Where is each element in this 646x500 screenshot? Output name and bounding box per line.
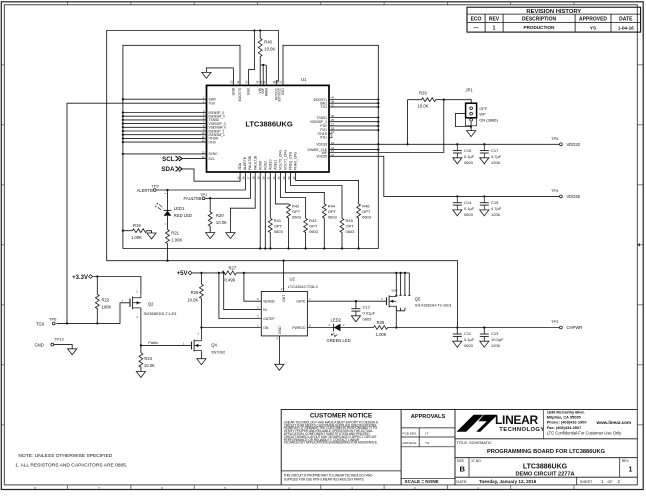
svg-text:SCL: SCL <box>209 157 216 161</box>
svg-text:GND: GND <box>232 87 236 95</box>
resistor R26 <box>187 284 203 302</box>
wire Partin to Q4 gate <box>141 344 192 346</box>
svg-text:R28: R28 <box>377 320 385 325</box>
svg-text:DATE:: DATE: <box>456 479 467 484</box>
svg-text:0603: 0603 <box>309 229 319 234</box>
LED2 green <box>327 317 351 343</box>
svg-text:1-04-16: 1-04-16 <box>618 25 634 30</box>
svg-text:CHPWR: CHPWR <box>567 325 583 330</box>
svg-text:1: 1 <box>629 466 633 473</box>
svg-text:4.7µF: 4.7µF <box>491 206 502 211</box>
resistor R44 <box>322 203 337 219</box>
wire inner ring (left bus, bottom bus, right bus) <box>123 45 378 248</box>
wire +5V rail <box>192 272 409 274</box>
svg-text:TG0: TG0 <box>36 321 45 326</box>
svg-text:VDD33: VDD33 <box>567 142 581 147</box>
svg-text:PWRGD: PWRGD <box>292 326 306 330</box>
svg-text:OPT: OPT <box>309 223 318 228</box>
wire R22 taps <box>96 277 98 324</box>
wire JP1 ON to ground <box>470 122 472 131</box>
ground flag near IC GND <box>202 72 211 78</box>
svg-text:OFF: OFF <box>479 106 488 111</box>
wire CHPWR run to TP3 <box>396 327 559 329</box>
svg-text:DATE: DATE <box>619 16 633 22</box>
svg-text:100K: 100K <box>102 305 112 310</box>
svg-text:OPT: OPT <box>362 209 371 214</box>
wire ITH1R ITH1 stubs <box>329 134 332 138</box>
op-amp U2 LTC4361CTS8-2 <box>257 277 318 341</box>
test point TP3 / CHPWR <box>551 319 582 330</box>
svg-text:C13: C13 <box>491 331 499 336</box>
svg-text:Q2: Q2 <box>148 301 154 306</box>
wire outer ring (+5V loop: top line, left edge, bottom bus, right drop to CHPWR) <box>107 31 458 328</box>
svg-text:IRAM: IRAM <box>264 88 268 96</box>
svg-text:TECHNOLOGY: TECHNOLOGY <box>499 427 544 433</box>
svg-text:10.0K: 10.0K <box>264 46 275 51</box>
svg-text:LED2: LED2 <box>331 317 342 322</box>
svg-text:0603: 0603 <box>464 212 474 217</box>
svg-text:R45: R45 <box>346 218 354 223</box>
wire PWRGD to LED2 <box>307 327 333 329</box>
svg-text:SCL: SCL <box>162 156 175 163</box>
svg-text:RUN1: RUN1 <box>263 161 267 170</box>
svg-text:PRODUCTION: PRODUCTION <box>524 25 556 30</box>
ground right of R19 <box>147 233 156 239</box>
wire ALERTB TP2 run <box>156 172 245 190</box>
svg-text:Partin: Partin <box>148 341 158 345</box>
resistor R27 <box>222 266 237 283</box>
svg-text:1206: 1206 <box>491 343 501 348</box>
svg-text:0603: 0603 <box>362 214 372 219</box>
wire SW0 <box>123 98 207 100</box>
wire R20 branch from TP1 line <box>209 198 211 232</box>
wire R40 top/bottom connections <box>260 31 266 86</box>
node SDA <box>161 166 182 173</box>
svg-text:C16: C16 <box>464 148 472 153</box>
resistor R43 <box>304 218 319 234</box>
svg-text:R26: R26 <box>191 290 199 295</box>
svg-text:TG1: TG1 <box>321 105 328 109</box>
svg-text:1: 1 <box>493 25 496 31</box>
svg-text:R21: R21 <box>171 230 179 235</box>
svg-text:RED LED: RED LED <box>174 213 192 218</box>
wire U2 GND to ground <box>278 336 280 364</box>
test point TP1 / FAULT0B <box>183 192 208 201</box>
wire VDD25 to TP4 <box>329 156 559 196</box>
svg-text:OUT: OUT <box>282 295 286 302</box>
svg-text:TECHNOLOGY APPLICATIONS ENGINE: TECHNOLOGY APPLICATIONS ENGINEERING FOR … <box>284 441 378 445</box>
ground below Q4 <box>197 359 206 365</box>
svg-text:2N7002: 2N7002 <box>211 350 226 355</box>
svg-text:0603: 0603 <box>464 343 474 348</box>
svg-text:R20: R20 <box>216 213 224 218</box>
svg-text:APPROVED: APPROVED <box>579 16 607 22</box>
transistor Q2 P-MOSFET <box>122 290 178 319</box>
wire U2 GATE to Q5 gate <box>307 300 386 302</box>
svg-text:RUN0: RUN0 <box>258 161 262 170</box>
svg-text:5678: 5678 <box>392 288 398 292</box>
capacitor C17 <box>480 144 502 165</box>
wire BOOST1 SW1 TG1 to right bus <box>329 100 378 107</box>
svg-text:SIZE: SIZE <box>457 459 465 463</box>
wire sense pins to left bus <box>123 113 207 143</box>
svg-text:+3.3V: +3.3V <box>72 275 88 281</box>
wire R26 <box>200 273 202 328</box>
wire WP to R29 <box>329 100 444 153</box>
LT logo <box>457 415 498 432</box>
IC U1 LTC3886UKG <box>202 77 335 179</box>
svg-text:ON: ON <box>263 326 269 330</box>
svg-text:+5V: +5V <box>177 271 188 277</box>
svg-text:OPT: OPT <box>328 209 337 214</box>
svg-text:OPT: OPT <box>292 209 301 214</box>
svg-text:C12: C12 <box>363 304 371 309</box>
svg-text:IN: IN <box>263 308 267 312</box>
svg-text:1.00K: 1.00K <box>376 332 387 337</box>
svg-text:OPT: OPT <box>274 223 283 228</box>
ground below R24 <box>136 372 145 378</box>
svg-text:ASEL1: ASEL1 <box>274 159 278 169</box>
wire GATEP to +5V <box>219 273 261 319</box>
svg-text:10.0K: 10.0K <box>187 297 198 302</box>
svg-text:C17: C17 <box>491 148 499 153</box>
svg-text:VDD33: VDD33 <box>316 143 327 147</box>
wire R29 ends <box>408 100 472 145</box>
transistor Q4 2N7002 <box>183 332 226 355</box>
ground FAULT1B <box>226 233 235 239</box>
ground TP13 <box>68 349 77 355</box>
svg-text:C14: C14 <box>464 200 472 205</box>
svg-text:0.1µF: 0.1µF <box>464 206 475 211</box>
svg-text:NOTE: UNLESS OTHERWISE SPECIFI: NOTE: UNLESS OTHERWISE SPECIFIED <box>18 453 112 459</box>
svg-text:0603: 0603 <box>292 214 302 219</box>
svg-text:TG0: TG0 <box>209 102 216 106</box>
svg-text:Si2365EDS-T1-E3: Si2365EDS-T1-E3 <box>144 311 178 316</box>
svg-text:TP5: TP5 <box>551 136 559 141</box>
wire TSNS1 VSENSP_1 PG0 PG1 to right bus <box>329 118 378 131</box>
wire R19 to ground <box>123 231 152 233</box>
svg-text:0603: 0603 <box>274 229 284 234</box>
svg-text:SENSE: SENSE <box>263 300 275 304</box>
svg-text:TP3: TP3 <box>551 319 559 324</box>
svg-text:GND: GND <box>278 326 282 334</box>
wire Q5 source merge to CHPWR <box>396 306 405 327</box>
wire FAULT1B to ground <box>230 172 255 233</box>
ground below JP1 <box>467 131 476 137</box>
svg-text:LTC3886UKG: LTC3886UKG <box>245 119 293 128</box>
wire SENSE drop from R27 right <box>244 273 261 301</box>
wire ASEL1 to R42 <box>275 172 288 249</box>
svg-text:PHAS_CFG: PHAS_CFG <box>294 152 298 170</box>
svg-text:SDA: SDA <box>238 162 242 170</box>
test point TP5 / VDD33 <box>551 136 581 147</box>
svg-text:10.0K: 10.0K <box>216 220 227 225</box>
svg-text:R41: R41 <box>274 218 282 223</box>
wire VOUT1_CFG to R44 <box>286 172 325 249</box>
svg-text:TP1: TP1 <box>200 192 208 197</box>
wire +3.3V rail to Q2 source <box>92 277 141 295</box>
wire SHARE_CLK <box>329 149 378 151</box>
wire PHAS_CFG to R46 <box>296 172 359 249</box>
svg-text:BG0: BG0 <box>247 88 251 95</box>
svg-text:0603: 0603 <box>464 160 474 165</box>
svg-text:OPT: OPT <box>346 223 355 228</box>
resistor R40 <box>258 39 275 57</box>
wire LED2 to R28 <box>341 327 397 329</box>
svg-text:1.00K: 1.00K <box>131 235 142 240</box>
svg-text:C11: C11 <box>464 331 472 336</box>
svg-text:Q4: Q4 <box>211 343 217 348</box>
svg-text:R29: R29 <box>419 91 427 96</box>
svg-text:—: — <box>474 25 479 31</box>
svg-text:10.0K: 10.0K <box>418 104 429 109</box>
svg-text:SCALE = NONE: SCALE = NONE <box>405 479 439 484</box>
svg-text:VOUT0_CFG: VOUT0_CFG <box>279 150 283 170</box>
test point TP6 / TG0 <box>36 316 57 326</box>
svg-text:FREQ_CFG: FREQ_CFG <box>289 151 293 169</box>
svg-text:0.499: 0.499 <box>225 277 236 282</box>
wire SDA route to pin 15 <box>182 169 240 181</box>
svg-text:LT: LT <box>425 432 428 436</box>
svg-text:VOUT1_CFG: VOUT1_CFG <box>284 150 288 170</box>
svg-text:YS: YS <box>425 441 429 445</box>
svg-text:LTC4361CTS8-2: LTC4361CTS8-2 <box>288 284 319 289</box>
REVISION HISTORY table <box>467 7 641 32</box>
svg-text:APPROVALS: APPROVALS <box>411 414 446 420</box>
TITLE BLOCK <box>281 410 637 485</box>
svg-text:APP ENG.: APP ENG. <box>403 441 418 445</box>
svg-text:ITH1: ITH1 <box>320 136 327 140</box>
svg-text:TITLE: SCHEMATIC: TITLE: SCHEMATIC <box>456 440 492 445</box>
svg-text:1206: 1206 <box>491 160 501 165</box>
resistor R29 <box>418 91 436 109</box>
svg-text:GATEP: GATEP <box>263 317 275 321</box>
svg-text:LTC Confidential-For Customer: LTC Confidential-For Customer Use Only <box>547 431 622 436</box>
svg-text:BG1: BG1 <box>281 88 285 95</box>
wire R24 to ground <box>140 345 142 371</box>
wire ASEL0 to R41 <box>269 172 271 249</box>
ground below U2 <box>275 364 284 370</box>
wire C12 stub <box>355 301 357 316</box>
wire U2 OUT to output ring <box>283 261 285 292</box>
wire VDD33 rail to TP5 <box>329 143 559 145</box>
junction dots bottom section <box>66 260 486 347</box>
svg-text:THIS CIRCUIT IS PROPRIETARY TO: THIS CIRCUIT IS PROPRIETARY TO LINEAR TE… <box>284 473 374 477</box>
svg-text:REV.: REV. <box>622 459 630 463</box>
wire LED1 branch from TP2 line <box>167 190 169 261</box>
ground below R20 <box>206 233 215 239</box>
svg-text:0.01µF: 0.01µF <box>363 310 376 315</box>
svg-text:R19: R19 <box>133 223 141 228</box>
svg-text:ALERTB: ALERTB <box>243 156 247 170</box>
svg-text:0.1µF: 0.1µF <box>464 154 475 159</box>
resistor R45 <box>340 218 355 234</box>
wire RUN0 RUN1 to bus <box>260 172 265 249</box>
svg-text:Fax: (408)434-0507: Fax: (408)434-0507 <box>547 425 582 430</box>
svg-text:IC NO.: IC NO. <box>472 459 482 463</box>
svg-text:DEMO CIRCUIT 2277A: DEMO CIRCUIT 2277A <box>515 472 574 478</box>
capacitor C15 <box>480 196 502 217</box>
svg-text:WP: WP <box>479 112 486 117</box>
svg-text:1.00K: 1.00K <box>171 238 182 243</box>
junction dots upper section <box>122 29 486 197</box>
svg-text:TP6: TP6 <box>49 316 57 321</box>
wire ON to Q4 drain <box>201 327 261 329</box>
wire GND pin to ground flag <box>206 68 233 86</box>
capacitor C12 <box>351 304 375 322</box>
wire Q4 source to ground <box>200 351 202 358</box>
svg-text:0603: 0603 <box>328 214 338 219</box>
capacitor C13 <box>480 331 504 348</box>
svg-text:DESCRIPTION: DESCRIPTION <box>522 16 557 22</box>
svg-text:R40: R40 <box>264 40 272 45</box>
svg-text:0603: 0603 <box>346 229 356 234</box>
svg-text:ITH0: ITH0 <box>209 140 216 144</box>
svg-text:LINEAR: LINEAR <box>495 413 539 427</box>
capacitor C11 <box>453 331 475 348</box>
svg-text:0.1µF: 0.1µF <box>464 337 475 342</box>
svg-text:YS: YS <box>590 25 596 30</box>
svg-text:OF: OF <box>608 480 614 484</box>
wire TG0 long run to TP6 <box>67 103 207 323</box>
resistor R24 <box>139 353 155 368</box>
svg-text:SYNC: SYNC <box>209 152 219 156</box>
svg-text:GND: GND <box>35 343 44 348</box>
wire FREQ_CFG to R45 <box>291 172 343 249</box>
svg-text:TP4: TP4 <box>551 188 559 193</box>
capacitor C14 <box>453 196 475 217</box>
resistor R28 <box>374 320 388 337</box>
test point TP2 / ALERTB <box>137 184 160 193</box>
svg-text:R43: R43 <box>309 218 317 223</box>
LED1 red <box>155 194 192 225</box>
svg-text:GATE: GATE <box>296 300 306 304</box>
resistor R20 <box>208 212 227 226</box>
svg-text:SI1416EDH-T1-GE3: SI1416EDH-T1-GE3 <box>415 303 452 308</box>
svg-text:R24: R24 <box>144 356 152 361</box>
svg-text:GREEN LED: GREEN LED <box>327 338 351 343</box>
resistor R41 <box>268 218 283 234</box>
svg-text:10.0µF: 10.0µF <box>491 337 504 342</box>
svg-text:R22: R22 <box>102 298 110 303</box>
svg-text:SHEET: SHEET <box>580 480 593 484</box>
svg-text:REV: REV <box>489 16 500 22</box>
resistor R21 <box>166 230 183 244</box>
svg-text:BOOST0: BOOST0 <box>238 88 242 102</box>
wire Q2 drain to Partin <box>140 308 142 346</box>
svg-text:FAULT0B: FAULT0B <box>248 155 252 170</box>
svg-text:FAULT1B: FAULT1B <box>253 155 257 170</box>
wire Q4 drain stub <box>200 328 202 340</box>
svg-text:Q5: Q5 <box>415 297 421 302</box>
svg-text:4.7µF: 4.7µF <box>491 154 502 159</box>
wire Q5 drain risers <box>395 273 410 295</box>
svg-text:CUSTOMER NOTICE: CUSTOMER NOTICE <box>310 413 373 420</box>
svg-text:SDA: SDA <box>161 166 175 173</box>
svg-text:10.0K: 10.0K <box>144 363 155 368</box>
jumper JP1 <box>466 87 499 125</box>
power flag +5V <box>177 271 192 277</box>
svg-text:PROGRAMMING BOARD FOR LTC3886U: PROGRAMMING BOARD FOR LTC3886UKG <box>487 449 606 455</box>
svg-text:PCB DES.: PCB DES. <box>403 432 418 436</box>
capacitor C16 <box>453 144 475 165</box>
svg-text:0603: 0603 <box>363 316 373 321</box>
resistor R22 <box>95 294 111 309</box>
svg-text:ASEL0: ASEL0 <box>268 159 272 169</box>
wire C13 stub <box>483 328 485 342</box>
svg-text:U1: U1 <box>301 77 307 82</box>
test point TP13 / GND <box>35 337 65 348</box>
svg-text:TP2: TP2 <box>152 184 160 189</box>
svg-text:B: B <box>460 464 466 473</box>
wire C11 stub <box>456 328 458 342</box>
power flag +3.3V <box>72 275 92 281</box>
svg-text:TP13: TP13 <box>54 337 64 342</box>
resistor R46 <box>357 203 372 219</box>
junction dots mid section <box>122 189 360 262</box>
svg-text:1. ALL RESISTORS AND CAPACITO: 1. ALL RESISTORS AND CAPACITORS ARE 0805… <box>15 462 127 468</box>
node SCL <box>162 156 182 163</box>
svg-text:LED1: LED1 <box>174 206 185 211</box>
svg-text:R42: R42 <box>292 203 300 208</box>
svg-text:Tuesday, January 12, 2016: Tuesday, January 12, 2016 <box>479 479 537 484</box>
wire JP1 WP loop <box>455 114 471 127</box>
wire TP13 to ground <box>54 345 72 349</box>
wire SCL <box>182 158 207 160</box>
svg-text:SUPPLIED FOR USE WITH LINEAR T: SUPPLIED FOR USE WITH LINEAR TECHNOLOGY … <box>284 478 365 482</box>
svg-text:ECO: ECO <box>471 16 482 22</box>
svg-text:LTC3886UKG: LTC3886UKG <box>523 463 568 470</box>
svg-text:R44: R44 <box>328 203 336 208</box>
svg-text:U2: U2 <box>290 277 296 282</box>
svg-text:VDD25: VDD25 <box>316 155 327 159</box>
wire VOUT0_CFG to R43 <box>280 172 305 249</box>
transistor Q5 SI1416EDH <box>381 288 452 308</box>
svg-text:JP1: JP1 <box>466 87 474 92</box>
svg-text:R46: R46 <box>362 203 370 208</box>
resistor R19 <box>131 223 147 240</box>
wire FAULT0B TP1 run <box>205 172 250 198</box>
wire SYNC <box>123 153 207 155</box>
svg-text:FAULT0B: FAULT0B <box>183 196 201 201</box>
svg-text:VDD25: VDD25 <box>567 194 581 199</box>
resistor R42 <box>287 203 302 219</box>
svg-text:C15: C15 <box>491 200 499 205</box>
wire IN to +5V <box>224 273 262 310</box>
svg-text:1206: 1206 <box>491 212 501 217</box>
svg-text:www.linear.com: www.linear.com <box>596 420 632 425</box>
NOTE text <box>15 453 127 468</box>
svg-text:R27: R27 <box>229 266 237 271</box>
wire VIN drop from top line <box>249 31 255 86</box>
svg-text:REVISION HISTORY: REVISION HISTORY <box>526 9 581 15</box>
test point TP4 / VDD25 <box>551 188 581 199</box>
wire TP6 TG0 run to Q2 gate <box>57 303 131 324</box>
svg-text:ON (3886): ON (3886) <box>479 118 498 123</box>
